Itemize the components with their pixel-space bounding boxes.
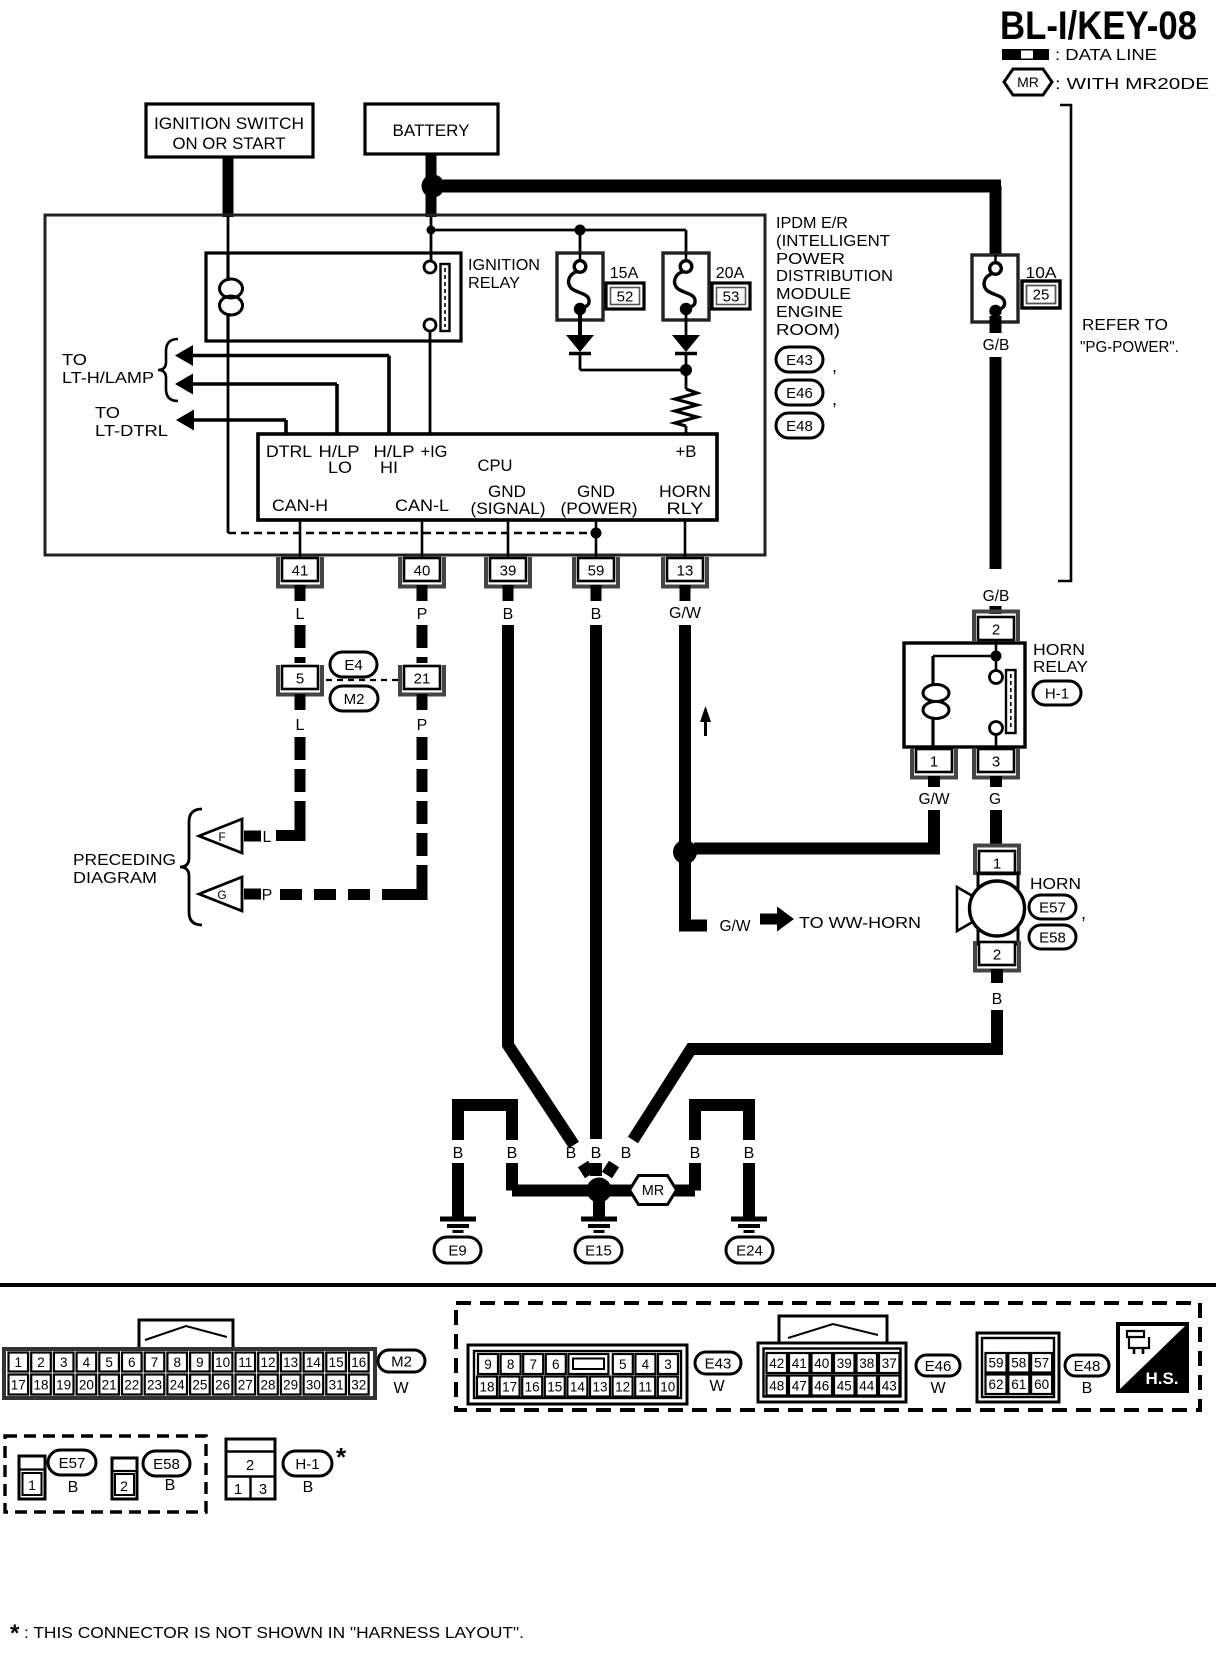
svg-text:15A: 15A [610,265,639,282]
connector ref E43 [776,347,837,376]
svg-text:DIAGRAM: DIAGRAM [73,870,157,887]
node diode join [680,355,692,376]
svg-text:40: 40 [814,1356,829,1371]
svg-text:1: 1 [993,856,1001,873]
svg-text:16: 16 [351,1355,366,1370]
wire CPU pin 41 lead [299,520,302,558]
svg-text:6: 6 [552,1357,560,1372]
wire DTRL to LT-DTRL arrow [194,420,286,434]
wire stub horn 2 [991,969,1003,983]
connector ref H-1 [1033,681,1081,705]
wire G/W pin 13 down [679,625,691,845]
svg-text:62: 62 [988,1377,1003,1392]
svg-text:G: G [217,888,226,902]
label TO LT-DTRL [95,405,168,440]
separator rule [0,1283,1216,1287]
svg-text:CAN-H: CAN-H [272,497,328,515]
svg-text:37: 37 [882,1356,897,1371]
label preceding diagram [73,852,176,887]
svg-text:E9: E9 [448,1242,466,1259]
label G/B upper [983,337,1010,354]
svg-text:18: 18 [33,1377,48,1392]
svg-text:LT-H/LAMP: LT-H/LAMP [62,370,154,387]
svg-text:G/B: G/B [983,337,1010,354]
svg-text:MR: MR [642,1183,665,1199]
wire right U to E24 ground [743,1163,755,1218]
svg-text:15: 15 [329,1355,344,1370]
connector ref E15 [575,1237,622,1263]
svg-text:48: 48 [769,1378,784,1393]
brace preceding diagram [180,809,202,925]
H.S. logo [1118,1324,1187,1391]
svg-text:M2: M2 [344,691,365,708]
data wire L pin41 to terminal 5 [295,625,306,663]
label B right U right [744,1145,755,1162]
svg-text:2: 2 [246,1458,254,1474]
wire stub pin 13 [680,585,691,601]
svg-text:W: W [709,1378,725,1395]
connector E46 tab [779,1316,887,1346]
terminal 2 horn [975,941,1019,971]
svg-text:ROOM): ROOM) [776,322,840,339]
svg-text:13: 13 [677,563,694,580]
svg-text:ON OR START: ON OR START [173,134,286,153]
brace LT-H/LAMP [158,339,178,401]
svg-text:POWER: POWER [776,251,845,268]
svg-text:32: 32 [351,1377,366,1392]
svg-text:*: * [10,1620,20,1647]
ignition switch box [146,104,313,157]
svg-text:(SIGNAL): (SIGNAL) [471,500,546,518]
label B horn diagonal [621,1145,632,1162]
fuse 52 15A [557,253,603,320]
ignition relay coil [220,217,243,341]
svg-text:43: 43 [882,1378,897,1393]
label ignition relay [468,257,540,292]
wire left U to E9 ground [452,1163,464,1218]
wire stub terminal 5 [295,694,306,710]
wire pin39 diagonal to node [583,1164,590,1175]
svg-text:E57: E57 [1039,899,1066,916]
svg-text:3: 3 [60,1355,68,1370]
svg-text:,: , [832,356,837,376]
svg-text:GND: GND [577,483,615,501]
svg-text:1: 1 [15,1355,23,1370]
svg-text:11: 11 [238,1355,252,1370]
svg-text:59: 59 [588,563,605,580]
svg-text:E57: E57 [59,1455,86,1472]
svg-text:3: 3 [259,1482,267,1498]
svg-text:60: 60 [1034,1377,1049,1392]
svg-text:9: 9 [196,1355,204,1370]
svg-text:B: B [303,1479,314,1496]
svg-text:57: 57 [1034,1356,1049,1371]
svg-text:11: 11 [638,1379,652,1394]
svg-text:IGNITION SWITCH: IGNITION SWITCH [154,114,304,133]
wire to ignition relay contact [430,234,433,261]
wire G/B to horn relay [990,606,1002,614]
svg-text:B: B [591,606,602,623]
svg-text:7: 7 [529,1357,537,1372]
horn relay coil [923,656,949,747]
label G/W pin 13 [669,605,702,622]
arrow F preceding diagram [199,819,261,853]
svg-text:9: 9 [484,1357,492,1372]
svg-text:3: 3 [992,754,1000,771]
wire fuse 25 out [990,316,1002,333]
wire stub pin 59 [591,585,602,601]
svg-text:41: 41 [792,1356,807,1371]
svg-text:B: B [453,1145,464,1162]
connector M2 view [4,1349,375,1398]
svg-text:B: B [744,1145,755,1162]
svg-text:14: 14 [570,1379,586,1394]
svg-text:TO: TO [95,405,120,422]
wire CPU pin 39 lead [507,520,510,558]
svg-text:B: B [621,1145,632,1162]
svg-text:E4: E4 [344,657,362,674]
svg-text:L: L [263,829,272,846]
svg-text:25: 25 [192,1377,207,1392]
label B left U left [453,1145,464,1162]
IPDM E/R box [45,215,765,555]
wire fuse 53 to diode [685,313,688,335]
terminal 59 [574,557,618,587]
label fuse 25 10A [1022,265,1060,308]
wire G/W relay to junction [694,810,940,849]
wire relay coil to dashed gnd [227,341,230,533]
svg-text:E15: E15 [585,1242,612,1259]
svg-text:: THIS CONNECTOR IS NOT SHOWN: : THIS CONNECTOR IS NOT SHOWN IN "HARNES… [24,1625,524,1642]
svg-text:: DATA LINE: : DATA LINE [1055,47,1157,64]
wire main battery bus to fuse 25 [443,186,1001,255]
wire stub horn relay 1 [928,776,940,787]
svg-text:12: 12 [615,1379,630,1394]
wire stub pin 41 [295,585,306,601]
svg-text:15: 15 [547,1379,562,1394]
legend MR hexagon [1004,69,1052,95]
wire stub horn relay 3 [990,776,1002,787]
svg-text:61: 61 [1011,1377,1026,1392]
terminal 1 horn relay [912,748,956,778]
label P below terminal 21 [417,717,428,734]
wire battery junction down into IPDM [426,195,437,217]
label TO LT-H/LAMP [62,352,154,387]
node main ground junction [587,1178,612,1203]
svg-text:G/W: G/W [919,791,950,808]
diode D1 under fuse 52 [566,335,594,354]
wire feed bus to fuses [431,230,686,253]
terminal 2 horn relay [974,612,1018,642]
svg-text:13: 13 [592,1379,607,1394]
wire G/W to WW-HORN [679,860,707,926]
svg-text:(INTELLIGENT: (INTELLIGENT [776,233,890,250]
svg-text:BL-I/KEY-08: BL-I/KEY-08 [1000,4,1197,48]
horn body [957,873,1025,944]
connector E57 view [19,1456,45,1499]
wire battery feed inside IPDM [430,217,433,230]
ignition relay box [206,253,461,341]
svg-text:20A: 20A [716,265,745,282]
svg-text:25: 25 [1033,287,1050,304]
svg-text:2: 2 [993,947,1001,964]
svg-text:L: L [296,606,305,623]
svg-text:E58: E58 [1039,929,1066,946]
svg-text:B: B [992,991,1003,1008]
svg-text:1: 1 [28,1477,36,1493]
connector ref M2 view [378,1350,425,1397]
svg-text:LO: LO [328,459,352,477]
svg-text:P: P [417,606,428,623]
svg-text:2: 2 [37,1355,45,1370]
label G/B lower [983,588,1010,605]
svg-text:E24: E24 [736,1242,763,1259]
bracket refer to PG-POWER [1058,105,1071,581]
svg-text:MR: MR [1017,74,1039,90]
svg-text:ENGINE: ENGINE [776,304,843,321]
wire left U to node [512,1163,592,1191]
label refer to PG-POWER [1080,317,1179,356]
svg-text:(POWER): (POWER) [561,500,638,518]
arrow up on G/W wire [700,706,711,736]
svg-text:14: 14 [306,1355,322,1370]
wire stub pin 40 [417,585,428,601]
svg-text:RELAY: RELAY [1033,659,1088,676]
svg-text:F: F [218,830,225,844]
svg-text:23: 23 [147,1377,162,1392]
CPU pin labels bottom [272,483,711,518]
svg-text:LT-DTRL: LT-DTRL [95,423,168,440]
svg-text:46: 46 [814,1378,829,1393]
junction G/W node [673,840,697,864]
label B pin39 diagonal [566,1145,577,1162]
connector ref H-1 view [283,1442,347,1496]
svg-text:59: 59 [988,1356,1003,1371]
resistor to +B [675,370,697,434]
horn relay box [904,643,1025,747]
svg-text:G: G [989,791,1001,808]
svg-text:E43: E43 [705,1355,732,1372]
svg-text:6: 6 [128,1355,136,1370]
svg-text:CPU: CPU [478,457,513,475]
label B right U left [690,1145,701,1162]
connector ref E57 view [48,1450,96,1496]
svg-text:5: 5 [619,1357,627,1372]
svg-text:B: B [68,1479,79,1496]
svg-text:53: 53 [723,289,740,306]
label B pin 39 [503,606,514,623]
connector ref E48 [776,413,823,438]
svg-text:22: 22 [124,1377,139,1392]
svg-text:17: 17 [11,1377,26,1392]
label B pin 59 [591,606,602,623]
svg-text:M2: M2 [391,1353,412,1370]
label B pin59 [591,1145,602,1162]
svg-text:42: 42 [769,1356,784,1371]
data wire P to preceding diagram [276,737,428,895]
CPU box [258,434,717,520]
label P arrow [262,887,273,904]
connector ref E4 [330,652,377,677]
svg-text:TO: TO [62,352,87,369]
svg-text:16: 16 [525,1379,540,1394]
junction battery node [422,175,445,198]
svg-text:E48: E48 [1074,1358,1101,1375]
svg-text:18: 18 [479,1379,494,1394]
svg-text:H.S.: H.S. [1145,1369,1178,1388]
svg-text:5: 5 [105,1355,113,1370]
svg-text:21: 21 [414,671,431,688]
terminal 1 horn [975,846,1019,876]
svg-text:"PG-POWER".: "PG-POWER". [1080,339,1179,356]
svg-text:MODULE: MODULE [776,286,851,303]
svg-text:TO WW-HORN: TO WW-HORN [799,915,921,932]
svg-text:G/W: G/W [669,605,702,622]
svg-text:26: 26 [215,1377,230,1392]
connector E46 view [758,1343,906,1402]
svg-text:47: 47 [792,1378,807,1393]
svg-text:IGNITION: IGNITION [468,257,540,274]
label IPDM E/R block [776,215,893,339]
svg-text:1: 1 [930,754,938,771]
svg-text:: WITH MR20DE: : WITH MR20DE [1055,76,1209,93]
svg-text:39: 39 [500,563,517,580]
arrow to LT-H/LAMP 2 [175,374,193,395]
label G horn relay [989,791,1001,808]
label G/W horn relay [919,791,950,808]
battery box [365,104,498,154]
node gnd power join [591,528,602,539]
wire stub pin 39 [503,585,514,601]
svg-text:B: B [503,606,514,623]
svg-text:RLY: RLY [667,500,704,518]
wire node to E15 ground [593,1200,605,1218]
label G/W WW-HORN [720,918,751,935]
svg-text:+B: +B [676,443,697,461]
footnote harness layout [10,1620,524,1647]
svg-text:8: 8 [507,1357,515,1372]
svg-text:E43: E43 [786,352,813,369]
svg-text:B: B [591,1145,602,1162]
label HORN [1030,876,1081,893]
svg-text:27: 27 [238,1377,253,1392]
data wire L to preceding diagram [276,737,306,836]
wire B pin 59 down [590,625,602,1139]
svg-text:2: 2 [120,1478,128,1494]
fuse 53 20A [663,253,709,320]
svg-text:52: 52 [617,289,634,306]
wire battery down [426,154,437,180]
svg-text:HORN: HORN [659,483,711,501]
label fuse 53 20A [712,265,750,309]
wire G/B down [990,357,1002,569]
svg-text:RELAY: RELAY [468,275,520,292]
label L pin 41 [296,606,305,623]
svg-text:P: P [262,887,273,904]
svg-text:38: 38 [859,1356,874,1371]
connector ref E57 [1029,895,1086,923]
wire diode D1 to join [580,355,686,370]
svg-text:*: * [336,1442,347,1472]
connector M2 tab [139,1320,233,1349]
dashed box E57 E58 [5,1436,206,1512]
wire pin59 to node [590,1163,602,1176]
dashed link terminal 5 to 21 [326,679,398,681]
legend with MR20DE text [1055,76,1209,93]
svg-text:19: 19 [56,1377,71,1392]
connector ref E58 [1029,925,1076,949]
svg-text:H-1: H-1 [1045,685,1069,702]
terminal 41 [278,557,322,587]
horn relay internal feed [933,641,1002,662]
svg-text:39: 39 [837,1356,852,1371]
svg-text:40: 40 [414,563,431,580]
connector E48 view [977,1333,1059,1402]
arrow to LT-DTRL [176,410,194,431]
ground E9 [440,1219,476,1232]
svg-text:30: 30 [306,1377,321,1392]
svg-text:4: 4 [642,1357,650,1372]
wire CPU pin 13 lead [684,520,687,558]
label B left U right [507,1145,518,1162]
data wire P pin40 to terminal 21 [417,625,428,663]
dashed harness box [456,1303,1200,1410]
wire G relay to horn [990,810,1002,846]
connector ref E24 [726,1237,773,1263]
connector E58 view [112,1458,137,1499]
terminal 40 [400,557,444,587]
CPU pin labels top [266,443,697,477]
svg-text:10: 10 [660,1379,675,1394]
connector ref E9 [434,1237,481,1263]
wire H/LP HI to LT-H/LAMP arrow [193,356,389,435]
svg-text:HORN: HORN [1033,642,1085,659]
arrow G preceding diagram [199,877,261,911]
svg-text:8: 8 [173,1355,181,1370]
ground E15 [581,1219,617,1232]
svg-text:HORN: HORN [1030,876,1081,893]
ground E24 [731,1219,767,1232]
svg-text:W: W [930,1380,946,1397]
arrow to LT-H/LAMP 1 [175,345,193,366]
label L below terminal 5 [296,717,305,734]
label TO WW-HORN [799,915,921,932]
svg-text:41: 41 [292,563,309,580]
wire B pin 39 down [508,625,574,1145]
label CPU [478,457,513,475]
svg-text:E46: E46 [786,385,813,402]
svg-text:H-1: H-1 [295,1456,319,1473]
svg-text:,: , [1081,903,1086,923]
svg-text:58: 58 [1011,1356,1026,1371]
svg-text:IPDM E/R: IPDM E/R [776,215,848,232]
svg-text:10: 10 [215,1355,230,1370]
label L arrow [263,829,272,846]
terminal 5 [278,665,322,695]
connector ref E48 view [1065,1355,1109,1397]
wire stub terminal 21 [417,694,428,710]
dashed wire coil return to GND POWER [228,532,596,535]
svg-text:31: 31 [329,1377,344,1392]
svg-text:E58: E58 [153,1456,180,1473]
connector ref E43 view [695,1352,741,1395]
ignition relay contact [424,261,450,331]
wire horn diagonal to node [607,1164,614,1175]
svg-text:DTRL: DTRL [266,443,312,461]
node fuse 52 branch [575,225,586,254]
wire horn B to junction [633,1010,997,1140]
svg-text:20: 20 [79,1377,94,1392]
